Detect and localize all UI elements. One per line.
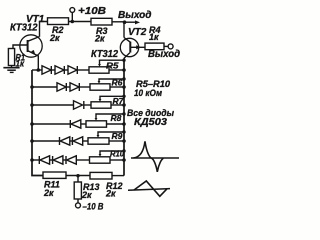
svg-text:R7: R7 — [113, 96, 125, 106]
svg-text:1к: 1к — [16, 58, 25, 68]
svg-text:КТ312: КТ312 — [10, 23, 38, 34]
svg-text:Выход: Выход — [118, 10, 152, 21]
svg-text:R5: R5 — [106, 61, 119, 71]
svg-text:КТ312: КТ312 — [91, 49, 118, 60]
svg-text:2к: 2к — [81, 190, 92, 200]
svg-text:2к: 2к — [94, 34, 105, 44]
svg-text:1к: 1к — [149, 32, 159, 42]
svg-text:2к: 2к — [105, 189, 116, 199]
svg-text:R10: R10 — [110, 149, 124, 159]
svg-text:Выход: Выход — [148, 49, 180, 60]
svg-text:2к: 2к — [49, 33, 60, 43]
svg-text:R8: R8 — [111, 113, 122, 123]
svg-text:–10 В: –10 В — [83, 202, 104, 212]
svg-text:2к: 2к — [43, 188, 54, 198]
svg-text:КД503: КД503 — [134, 117, 167, 128]
svg-text:VT2: VT2 — [128, 27, 147, 38]
svg-text:R9: R9 — [112, 131, 123, 141]
svg-text:10 кОм: 10 кОм — [134, 88, 162, 99]
svg-text:R6: R6 — [112, 77, 123, 87]
svg-text:+10В: +10В — [78, 6, 106, 17]
